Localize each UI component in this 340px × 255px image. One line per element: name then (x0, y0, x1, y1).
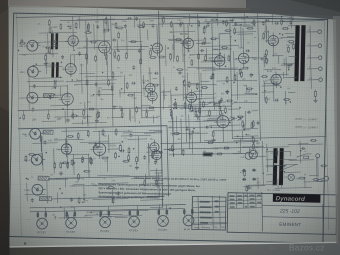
wire clutter 217 (182, 81, 184, 101)
wire plate V1a (72, 16, 74, 32)
revision table row line 3 (193, 211, 227, 214)
wire clutter 86 (39, 31, 78, 34)
value label clutter 269 (242, 79, 246, 81)
wire clutter 205 (202, 68, 243, 71)
resistor R31 (196, 83, 198, 90)
wire clutter 214 (203, 59, 225, 62)
junction dot 118 (18, 50, 19, 51)
label ECC808 (180, 34, 189, 36)
value label clutter 457 (150, 139, 153, 141)
wire clutter 87 (129, 109, 131, 120)
junction dot 537 (230, 122, 231, 123)
wire clutter 621 (27, 218, 29, 221)
wire clutter 84 (77, 18, 115, 21)
wire clutter 504 (233, 101, 258, 104)
value label clutter 277 (243, 85, 246, 87)
label EL34 V9 (264, 31, 270, 33)
wire clutter 238 (244, 57, 257, 59)
wire lower vert 3 (73, 154, 76, 175)
resistor/capacitor clutter 159 (230, 19, 234, 22)
value label clutter 635 (96, 214, 98, 216)
resistor/capacitor clutter 372 (94, 142, 97, 146)
resistor/capacitor clutter 304 (260, 58, 267, 60)
resistor/capacitor clutter 484 (182, 149, 184, 156)
wire midrail drop 12 (170, 107, 172, 111)
wire clutter 520 (197, 97, 216, 99)
resistor/capacitor clutter 381 (107, 187, 114, 189)
junction dot 446 (133, 148, 134, 149)
value label clutter 551 (168, 127, 172, 129)
value label clutter 285 (173, 67, 175, 69)
junction dot 113 (73, 50, 74, 51)
value label clutter 602 (274, 172, 278, 174)
capacitor top-row 10 (152, 24, 155, 28)
label top-row 10 (150, 20, 154, 22)
terminal T5 (1,5 ohm) (319, 78, 323, 82)
resistor/capacitor clutter 188 (228, 55, 230, 62)
resistor R54 (128, 154, 130, 161)
wire clutter 43 (141, 117, 158, 119)
junction dot 338 (273, 83, 274, 84)
wire clutter 221 (254, 59, 257, 61)
tube socket H5 heater view (158, 216, 169, 227)
wire V13 plate (65, 128, 67, 141)
value label clutter 480 (82, 179, 84, 181)
diode D2 (237, 116, 241, 120)
resistor R40 (243, 124, 245, 131)
wire tremolo rail 3 (170, 132, 208, 135)
junction dot 104 (54, 94, 55, 95)
junction dot 243 (176, 108, 177, 109)
tube V7 (EL84 driver left) (212, 53, 225, 69)
wire clutter 589 (274, 187, 312, 190)
value label clutter 552 (203, 151, 206, 153)
wire top-row drop 23 (271, 12, 273, 25)
resistor/capacitor clutter 488 (173, 133, 180, 135)
revision table header row line (193, 223, 227, 226)
label tap 1,5 (309, 78, 313, 80)
resistor/capacitor clutter 176 (203, 27, 205, 34)
value label clutter 610 (288, 160, 291, 162)
terminal T3 (5 ohm) (318, 56, 322, 60)
wire vertical bus V14 (258, 13, 261, 142)
value label clutter 606 (304, 174, 306, 176)
title block entry 2 (handwriting) (237, 195, 242, 197)
resistor/capacitor clutter 25 (138, 49, 141, 53)
label midrail-row 3 (58, 118, 62, 120)
wire clutter 94 (50, 105, 68, 107)
resistor/capacitor clutter 369 (82, 156, 84, 163)
paper top edge shadow line (8, 7, 250, 10)
capacitor top-row 1 (69, 25, 72, 29)
wire clutter 95 (128, 41, 143, 43)
tube V15 (ECC83 tremolo a) (147, 140, 159, 155)
wire clutter 623 (58, 216, 92, 219)
wire clutter 66 (27, 80, 64, 83)
wire clutter 38 (86, 38, 89, 65)
resistor top-row 21 (253, 19, 255, 26)
label ECC81 (37, 230, 46, 234)
value label clutter 346 (285, 64, 290, 66)
capacitor top-row 13 (179, 23, 182, 27)
resistor R24 (212, 72, 214, 79)
wire clutter 586 (266, 144, 269, 172)
value label clutter 475 (85, 200, 88, 202)
wire lower vert 1 (88, 154, 91, 178)
value label clutter 356 (275, 41, 279, 43)
wire PI vert down (222, 130, 224, 143)
wire clutter 209 (187, 43, 189, 51)
wire clutter 81 (86, 115, 88, 123)
value label clutter 478 (93, 185, 97, 187)
wire clutter 318 (285, 57, 287, 75)
resistor R7 (111, 84, 113, 91)
wire clutter 230 (190, 16, 206, 18)
wire clutter 388 (93, 198, 129, 201)
label tap 8 (308, 44, 310, 46)
resistor/capacitor clutter 27 (51, 45, 58, 47)
value label clutter 352 (279, 38, 283, 40)
wire clutter 204 (198, 101, 226, 104)
wire clutter 197 (165, 45, 167, 66)
wire clutter 413 (154, 179, 163, 181)
value label clutter 120 (80, 65, 83, 67)
resistor/capacitor clutter 32 (75, 22, 77, 29)
value label clutter 631 (71, 207, 75, 209)
label EF86 V2 (96, 40, 102, 42)
resistor R18 (148, 107, 155, 109)
resistor R28 (246, 27, 253, 29)
resistor/capacitor clutter 360 (90, 158, 92, 165)
wire midrail drop 4 (72, 109, 74, 113)
resistor top-row 24 (281, 19, 283, 26)
wire clutter 226 (204, 20, 233, 23)
wire clutter 202 (251, 22, 256, 24)
resistor R46 (212, 130, 214, 137)
wire clutter 590 (316, 158, 319, 180)
wire clutter 196 (190, 83, 200, 85)
junction dot 255 (245, 61, 246, 62)
value label clutter 280 (222, 83, 225, 85)
resistor/capacitor clutter 26 (71, 115, 78, 117)
wire clutter 617 (159, 204, 161, 215)
resistor R9 (130, 41, 137, 43)
wire clutter 91 (23, 96, 63, 99)
label midrail-row 11 (156, 116, 160, 118)
wire clutter 232 (176, 104, 208, 107)
value label clutter 607 (284, 177, 286, 179)
value label clutter 555 (222, 105, 226, 107)
label output transformer (282, 21, 293, 23)
tube V12 (ECC83 mid) (184, 89, 197, 105)
label mgn 1 (22, 133, 29, 136)
wire clutter 393 (68, 153, 89, 155)
wire clutter 236 (194, 90, 202, 92)
resistor/capacitor clutter 306 (274, 99, 278, 102)
value label clutter 630 (66, 217, 70, 219)
resistor R2 (95, 55, 97, 62)
wire clutter 198 (232, 24, 250, 26)
wire clutter 387 (150, 169, 163, 171)
junction dot 116 (143, 82, 144, 83)
value label clutter 294 (214, 93, 216, 95)
resistor/capacitor clutter 498 (209, 109, 211, 116)
wire clutter 579 (298, 143, 308, 145)
wire clutter 502 (172, 153, 174, 157)
value label clutter 151 (115, 106, 118, 108)
value label clutter 124 (107, 41, 110, 43)
resistor R34 (189, 103, 191, 110)
junction dot 597 (284, 165, 285, 166)
ground G6 (output) (314, 98, 318, 102)
resistor/capacitor clutter 174 (158, 56, 165, 58)
tube V5a (143, 81, 156, 97)
resistor/capacitor clutter 379 (159, 151, 163, 154)
value label clutter 348 (263, 62, 268, 64)
value label clutter 456 (91, 184, 95, 186)
tube socket H6 heater view (183, 215, 194, 226)
value label clutter 604 (256, 151, 260, 153)
wire clutter 615 (115, 216, 128, 218)
junction dot 101 (118, 51, 119, 52)
junction dot 256 (212, 74, 213, 75)
junction dot 244 (173, 108, 174, 109)
wire clutter 423 (54, 138, 84, 141)
junction dot 447 (32, 162, 33, 163)
wire link V5 out (160, 91, 170, 93)
choke L3 (input 5 filter) (38, 176, 49, 180)
wire clutter 411 (80, 141, 109, 144)
resistor/capacitor clutter 14 (98, 89, 100, 96)
wire clutter 333 (272, 75, 275, 102)
junction dot 593 (284, 165, 285, 166)
junction dot 253 (225, 66, 226, 67)
resistor/capacitor clutter 302 (283, 99, 290, 101)
ground G5 (225, 90, 229, 94)
resistor/capacitor clutter 365 (78, 173, 80, 180)
resistor midrail-row 16 (220, 109, 222, 116)
wire clutter 404 (145, 174, 147, 184)
wire clutter 620 (102, 215, 143, 218)
resistor/capacitor clutter 187 (210, 38, 217, 40)
wire clutter 508 (228, 108, 240, 110)
wire clutter 73 (28, 68, 31, 98)
wire clutter 400 (92, 130, 132, 133)
resistor R56 (152, 152, 154, 159)
transformer TR2 (MIC 2 input) core bars (51, 62, 58, 77)
switch S1 (mains) (297, 154, 312, 157)
resistor top-row 3 (88, 23, 90, 30)
wire clutter 390 (26, 183, 28, 202)
resistor/capacitor clutter 171 (226, 90, 229, 94)
value label clutter 122 (105, 47, 107, 49)
wire TR4 sec 2 (280, 158, 297, 160)
resistor/capacitor clutter 295 (263, 32, 265, 39)
wire clutter 503 (254, 149, 256, 155)
wire clutter 576 (290, 159, 314, 162)
value label clutter 459 (71, 198, 75, 200)
wire clutter 427 (48, 178, 68, 180)
junction dot 106 (93, 94, 94, 95)
value label clutter 119 (76, 79, 78, 81)
resistor R55 (136, 156, 138, 163)
resistor/capacitor clutter 382 (67, 135, 74, 137)
value label clutter 482 (125, 138, 129, 140)
resistor/capacitor clutter 301 (264, 54, 267, 58)
value label clutter 464 (89, 157, 92, 159)
junction dot 114 (36, 64, 37, 65)
junction dot 451 (62, 163, 63, 164)
wire top-row drop 5 (106, 16, 108, 29)
resistor Rh3b (108, 210, 110, 217)
resistor/capacitor clutter 308 (293, 43, 295, 50)
wire vertical bus V12 (212, 23, 214, 106)
junction dot 341 (288, 69, 289, 70)
wire clutter 499 (244, 111, 246, 125)
resistor R21 (177, 55, 179, 62)
junction dot 249 (252, 22, 253, 23)
tube V16 (ECC83 tremolo b) (149, 148, 161, 163)
title block entry 3 (handwriting) (244, 195, 247, 197)
label ECC83 (158, 228, 167, 232)
junction dot 450 (35, 155, 36, 156)
tube V13 (ECC83 lower a) (58, 141, 71, 157)
wire V4 plate (156, 24, 158, 40)
resistor/capacitor clutter 560 (246, 185, 248, 192)
wire tremolo rail 1 (168, 121, 216, 122)
capacitor top-row 7 (124, 24, 127, 28)
junction dot 107 (121, 88, 122, 89)
resistor Rh2b (74, 211, 76, 218)
wire clutter 194 (187, 73, 189, 93)
wire clutter 41 (19, 53, 59, 56)
wire clutter 237 (231, 94, 257, 97)
wire clutter 580 (285, 163, 298, 165)
wire clutter 241 (200, 45, 239, 48)
title block entry 9 (handwriting) (230, 202, 235, 204)
resistor/capacitor clutter 24 (53, 40, 57, 43)
junction dot 536 (237, 136, 238, 137)
wire clutter 50 (29, 85, 68, 88)
wire tremolo vert 3 (188, 115, 191, 149)
wire clutter 582 (288, 143, 324, 146)
wire V11 grid (207, 119, 217, 121)
wire clutter 37 (82, 120, 84, 125)
wire clutter 584 (277, 179, 279, 188)
junction dot 437 (136, 163, 137, 164)
wire clutter 392 (131, 177, 161, 180)
wire clutter 619 (55, 216, 57, 219)
resistor/capacitor clutter 362 (115, 152, 117, 159)
wire clutter 612 (150, 207, 163, 209)
label 6,3 (296, 178, 300, 180)
wire clutter 195 (256, 93, 258, 95)
wire V5 plate (149, 67, 151, 80)
wire clutter 517 (252, 110, 258, 112)
resistor R53 (115, 128, 117, 135)
value label clutter 158 (51, 27, 55, 29)
title block small table divider (261, 192, 264, 231)
value label clutter 541 (214, 148, 219, 150)
wire clutter 396 (64, 178, 66, 187)
capacitor C9 (175, 87, 178, 91)
value label clutter 133 (80, 103, 82, 105)
resistor/capacitor clutter 376 (31, 198, 34, 202)
wire clutter 436 (146, 151, 162, 153)
wire V14 plate (98, 130, 100, 140)
junction dot 531 (246, 134, 247, 135)
value label clutter 126 (100, 99, 103, 101)
value label clutter 155 (42, 46, 44, 48)
wire clutter 428 (155, 168, 157, 186)
junction dot 449 (46, 152, 47, 153)
value label clutter 131 (121, 40, 124, 42)
rectifier B1 (selenium bridge) body (245, 150, 257, 159)
resistor/capacitor clutter 163 (203, 26, 207, 29)
drawing number 225-102 (279, 208, 300, 214)
junction dot 535 (253, 153, 254, 154)
value label clutter 598 (304, 151, 306, 153)
resistor/capacitor clutter 384 (112, 197, 114, 204)
wire clutter 224 (169, 39, 203, 42)
resistor top-row 9 (143, 21, 145, 28)
revision entry 2 (handwriting) (200, 206, 212, 208)
revision header text (194, 226, 226, 229)
wire clutter 47 (45, 53, 48, 75)
value label clutter 291 (248, 91, 250, 93)
value label clutter 463 (54, 139, 58, 141)
wire clutter 189 (189, 53, 220, 56)
value label clutter 453 (81, 162, 83, 164)
value label clutter 357 (272, 68, 276, 70)
wire clutter 506 (203, 119, 231, 122)
wire clutter 501 (189, 98, 202, 100)
ground G8 (59, 171, 63, 175)
revision table frame (192, 196, 226, 230)
wire clutter 316 (262, 85, 281, 87)
capacitor C13 (205, 126, 209, 129)
label MR 1 (19, 45, 25, 48)
wire vertical bus V7 (111, 16, 113, 127)
wire clutter 325 (278, 55, 280, 63)
resistor midrail-row 10 (146, 111, 148, 118)
value label clutter 550 (196, 121, 199, 123)
wire clutter 399 (162, 194, 164, 196)
resistor/capacitor clutter 22 (113, 105, 116, 109)
wire clutter 97 (106, 61, 108, 80)
wire clutter 572 (242, 146, 264, 148)
tube V6 (ECC808) (180, 35, 193, 51)
wire screen rail (158, 21, 324, 25)
resistor/capacitor clutter 559 (310, 139, 317, 141)
value label clutter 137 (119, 106, 123, 108)
label top-row 16 (205, 19, 207, 21)
revision entry 3 (handwriting) (200, 211, 211, 213)
tube V1a (65, 33, 78, 49)
wire clutter 93 (126, 29, 129, 56)
resistor R12 (88, 108, 95, 110)
resistor midrail-row 8 (121, 111, 123, 118)
value label clutter 143 (62, 68, 66, 70)
wire clutter 89 (75, 83, 115, 86)
junction dot 533 (212, 153, 213, 154)
resistor R50 (77, 132, 79, 139)
wire clutter 239 (233, 51, 236, 78)
wire clutter 74 (28, 41, 68, 44)
wire B+ mid rail (18, 106, 232, 110)
revision table column line 1 (197, 196, 200, 229)
revision entry 1 (handwriting) (200, 201, 210, 203)
